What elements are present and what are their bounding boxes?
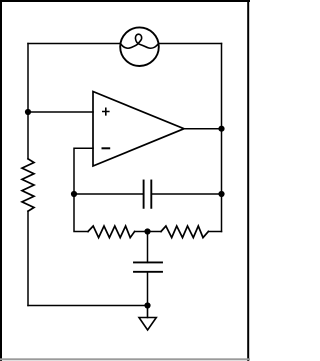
lamp bbox=[120, 27, 159, 66]
wire resistor to center node bbox=[135, 231, 148, 233]
wire right resistor to right vertical bbox=[208, 231, 221, 233]
resistor bottom-right bbox=[161, 226, 208, 238]
ground bbox=[139, 306, 156, 331]
wire left drop to bottom resistor bbox=[74, 194, 88, 232]
wire bottom horizontal bbox=[28, 305, 148, 307]
wire feedback row left bbox=[74, 193, 144, 195]
wire top-right segment bbox=[159, 43, 221, 45]
op-amp bbox=[93, 92, 184, 167]
capacitor bottom (shunt) bbox=[134, 262, 162, 271]
node: ground junction bbox=[144, 302, 150, 308]
wire left vertical upper bbox=[27, 44, 29, 159]
border frame (decorative) bbox=[0, 0, 250, 361]
wire capacitor to ground node bbox=[147, 272, 149, 306]
node: non-inverting input junction bbox=[25, 109, 31, 115]
wire to + input bbox=[28, 111, 93, 113]
node: inverting feedback junction left bbox=[71, 191, 77, 197]
wire center node down to capacitor bbox=[147, 232, 149, 263]
node: resistor midpoint bbox=[144, 228, 150, 234]
capacitor feedback (series) bbox=[144, 181, 152, 208]
wire feedback row right bbox=[151, 193, 221, 195]
resistor bottom-left bbox=[88, 226, 135, 238]
wire left vertical lower bbox=[27, 211, 29, 305]
resistor left vertical bbox=[22, 159, 34, 211]
wire top-left segment bbox=[28, 43, 120, 45]
wire right vertical (top corner to bottom resistor corner) bbox=[221, 44, 223, 232]
wire op-amp output bbox=[184, 128, 222, 130]
wire inverting input branch bbox=[74, 148, 93, 194]
node: output junction bbox=[218, 126, 224, 132]
node: feedback junction right bbox=[218, 191, 224, 197]
wire center node to right resistor bbox=[148, 231, 162, 233]
